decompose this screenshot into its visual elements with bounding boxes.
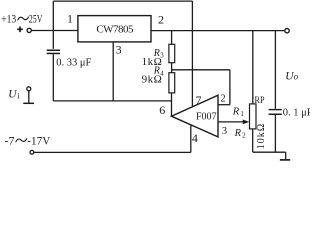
svg-text:2: 2	[158, 12, 164, 26]
capacitor C1 0.33uF plates	[47, 50, 60, 55]
svg-text:3: 3	[116, 42, 122, 56]
ground stub	[285, 152, 287, 159]
Ui terminal stem	[28, 91, 30, 103]
svg-text:CW7805: CW7805	[96, 24, 134, 36]
wire left riser from input line to top rail	[52, 1, 54, 30]
wire input from + terminal to pin 1	[32, 30, 78, 32]
wire riser from input line down to C1	[52, 31, 54, 49]
svg-text:3: 3	[222, 126, 227, 137]
wire ground rail	[253, 151, 286, 153]
svg-text:+13: +13	[1, 14, 16, 26]
terminal output circle	[285, 29, 289, 33]
ground bar	[280, 159, 290, 161]
resistor R4 body	[169, 73, 175, 93]
svg-text:R: R	[232, 106, 240, 117]
svg-text:4: 4	[192, 131, 198, 145]
svg-text:10kΩ: 10kΩ	[256, 123, 267, 149]
svg-text:i: i	[17, 90, 20, 100]
wire R4 bottom lead to op-amp output node	[171, 93, 173, 116]
wire pin 2 horizontal stub	[218, 104, 230, 106]
terminal + input circle	[27, 28, 31, 32]
wire RP bottom lead	[252, 129, 254, 152]
svg-text:0. 33 μF: 0. 33 μF	[56, 57, 91, 68]
svg-text:9kΩ: 9kΩ	[142, 74, 163, 86]
resistor R3 body	[169, 44, 175, 62]
svg-text:25V: 25V	[29, 14, 43, 26]
svg-text:U: U	[8, 89, 17, 101]
regulator U1 CW7805 box	[78, 16, 151, 42]
terminal negative input circle	[30, 150, 34, 154]
wire negative supply rail	[34, 151, 191, 153]
svg-text:2: 2	[242, 131, 246, 140]
capacitor C2 0.1uF plates	[269, 109, 282, 115]
wire common rail	[53, 100, 171, 102]
wire pin 3 to RP wiper	[218, 121, 244, 123]
svg-text:-17V: -17V	[27, 134, 50, 148]
potentiometer RP body	[250, 104, 257, 129]
svg-text:0. 1 μF: 0. 1 μF	[283, 107, 310, 118]
wire divider tap to pin 2 of op-amp	[172, 69, 230, 71]
svg-text:R: R	[234, 128, 242, 139]
svg-text:o: o	[294, 72, 299, 82]
wire R3 top lead	[171, 31, 173, 45]
svg-text:F007: F007	[196, 111, 217, 122]
terminal Ui circle	[27, 87, 31, 91]
svg-text:1: 1	[67, 11, 73, 25]
wire pin 7 drop from top rail	[191, 1, 193, 106]
svg-text:RP: RP	[255, 96, 265, 106]
wire pin 3 drop	[112, 42, 114, 101]
wire C2 bottom lead	[274, 115, 276, 152]
wire pin 2 vertical drop	[229, 70, 231, 105]
svg-text:2: 2	[220, 93, 225, 104]
wire top rail (+V over the top)	[53, 0, 192, 2]
svg-text:7: 7	[196, 93, 202, 107]
Ui terminal bar	[23, 102, 34, 104]
op-amp U2 F007 triangle	[171, 95, 218, 137]
wire RP top lead	[252, 31, 254, 104]
wiper arrowhead	[243, 120, 250, 125]
wire R3-R4 link	[171, 63, 173, 73]
wire C2 top lead	[274, 31, 276, 109]
svg-text:6: 6	[159, 103, 165, 117]
plus sign	[17, 27, 23, 33]
svg-text:-7: -7	[5, 134, 15, 148]
wire pin 4 drop	[190, 125, 192, 152]
wire C1 bottom lead	[52, 54, 54, 101]
wire output from pin 2 to Uo terminal	[151, 30, 284, 32]
svg-text:1: 1	[240, 109, 244, 118]
